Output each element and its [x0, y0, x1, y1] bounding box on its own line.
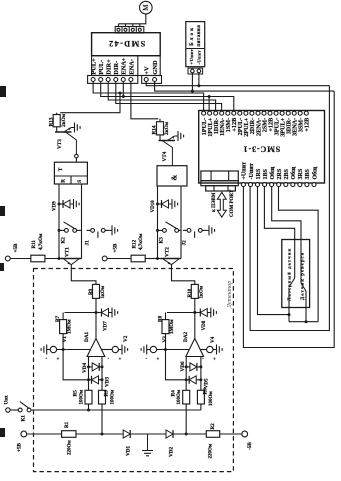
wire trigger S output to VT1 collector	[81, 184, 83, 259]
wire R12 to VT2 base	[145, 258, 160, 260]
junction VD10 tap	[156, 203, 159, 206]
diode VD2	[166, 430, 173, 438]
diode VD7	[102, 309, 109, 317]
wire X1 pin3 stub	[132, 24, 134, 27]
svg-text:V4: V4	[210, 336, 216, 343]
svg-text:100Ом: 100Ом	[110, 389, 115, 404]
SMD-42 signal terminal box	[88, 76, 138, 84]
transistor VT1	[61, 258, 82, 260]
wire DA1 right input rail	[101, 357, 103, 391]
svg-text:VD4: VD4	[82, 363, 88, 373]
contact K3	[163, 229, 167, 233]
svg-text:Общ: Общ	[290, 166, 297, 180]
svg-text:V2: V2	[123, 335, 129, 342]
svg-text:R6: R6	[203, 388, 209, 395]
ground center rail	[147, 434, 149, 451]
switch K1	[18, 408, 22, 412]
wire Uvx rail	[31, 409, 201, 411]
junction laser return	[288, 313, 291, 316]
reverse sensor contact	[300, 240, 302, 284]
svg-text:4,7кОм: 4,7кОм	[139, 233, 144, 250]
SMD-42 terminal DIR-	[114, 78, 118, 82]
svg-text:M: M	[142, 4, 150, 11]
svg-text:2кОм: 2кОм	[164, 121, 170, 135]
svg-text:R14: R14	[151, 125, 157, 134]
svg-text:-5В: -5В	[247, 442, 253, 450]
SMC bottom pin +Uпит	[241, 183, 245, 187]
svg-text:100Ом: 100Ом	[177, 389, 182, 404]
SMC pin 2SM- (11)	[262, 111, 266, 115]
junction -U/+V rail	[197, 84, 200, 87]
wire R8 to V3 line	[165, 334, 167, 350]
resistor R3	[99, 390, 106, 404]
power supply unit body	[186, 22, 205, 67]
wire R10 to DA2 output	[194, 298, 196, 338]
junction DA2 output node	[193, 311, 196, 314]
dashed boundary box (shaper unit)	[34, 269, 234, 472]
ground VD7	[109, 312, 113, 314]
power supply divider	[186, 48, 205, 50]
svg-text:+Uпит: +Uпит	[189, 49, 194, 65]
wire 1RS to laser sensor return	[258, 187, 290, 315]
SMC pin 3SM- (17)	[298, 111, 302, 115]
junction R3/rail	[101, 433, 104, 436]
svg-text:2RS: 2RS	[277, 168, 283, 179]
svg-text:VD8: VD8	[202, 320, 207, 330]
wire to K3 left	[158, 229, 163, 231]
wire X1 pin1 stub	[118, 24, 120, 27]
wire K2 right to riser	[77, 229, 82, 231]
wire GND loop to +Upit pin	[243, 91, 334, 347]
junction K2 tap	[58, 229, 61, 232]
svg-text:220Ом: 220Ом	[209, 443, 214, 458]
COM PORT bottom divider 2	[227, 186, 229, 191]
svg-text:к ПЭВМ: к ПЭВМ	[212, 192, 217, 212]
svg-text:GND: GND	[152, 60, 159, 75]
svg-text:R4: R4	[170, 390, 176, 397]
connector X1 body	[115, 27, 144, 34]
svg-text:R3: R3	[104, 390, 110, 397]
wire DA2 left input rail	[185, 357, 187, 391]
svg-text:VD9: VD9	[53, 201, 58, 211]
SMC bottom pin 1BS	[263, 183, 267, 187]
driver SMD-42 pin label strip	[92, 56, 161, 76]
connector X1 pin2	[124, 28, 127, 31]
resistor R9	[93, 284, 100, 298]
resistor R6	[197, 390, 204, 404]
svg-text:VD6: VD6	[180, 361, 186, 371]
svg-text:+V: +V	[144, 66, 151, 75]
svg-text:+5В: +5В	[13, 243, 19, 253]
ground V4	[213, 349, 217, 351]
SMC bottom pin 3RS	[298, 183, 302, 187]
svg-text:220Ом: 220Ом	[67, 440, 72, 455]
wire R14 to VT4 base	[159, 135, 161, 140]
op-amp DA2	[186, 338, 204, 356]
svg-text:1кОм: 1кОм	[200, 285, 205, 298]
SMC pin 1ENA- (4)	[220, 111, 224, 115]
wire R2 to -5B	[220, 433, 242, 435]
wire to VD10	[158, 203, 162, 205]
svg-text:Uвх: Uвх	[4, 395, 10, 405]
junction ENA+ tap	[122, 95, 125, 98]
ground V3	[147, 349, 151, 351]
svg-text:Общ: Общ	[269, 166, 276, 180]
svg-text:1BS: 1BS	[263, 168, 269, 179]
diode VD5	[189, 376, 196, 384]
wire R5 to Uvx rail	[88, 404, 90, 410]
SMD-42 terminal GND	[153, 78, 157, 82]
power supply terminal +U	[191, 69, 195, 73]
svg-text:J2: J2	[182, 240, 188, 246]
junction R5/rail	[87, 409, 90, 412]
wire +5B to R11	[10, 258, 31, 260]
wire +U terminal to GND rail	[191, 73, 193, 91]
wire R9 to DA1 output	[95, 298, 97, 338]
AND gate DD2 body	[157, 166, 187, 186]
wire sensor common rail	[289, 321, 318, 323]
svg-text:R1: R1	[65, 421, 70, 428]
junction VT1 base	[58, 257, 61, 260]
junction R4/rail	[185, 433, 188, 436]
svg-text:1МОм: 1МОм	[68, 319, 73, 334]
diode VD9	[63, 200, 70, 208]
ground J2	[206, 229, 210, 231]
svg-text:S: S	[78, 180, 83, 183]
wire PUL+ to 1PUL-	[93, 82, 204, 113]
COM PORT divider 1	[210, 171, 212, 181]
driver SMD-42 strip divider	[137, 56, 139, 76]
wire node to R8	[167, 312, 195, 314]
SMD-42 power terminal box	[142, 76, 162, 84]
SMC pin +12B (12)	[268, 111, 272, 115]
SMD-42 terminal DIR+	[106, 78, 110, 82]
SMC pin 1DIR- (3)	[214, 111, 218, 115]
wire tap to R13	[60, 93, 120, 113]
SMC bottom pin 1RS	[256, 183, 260, 187]
terminal +5B (VT1)	[5, 256, 10, 261]
ground VD8	[207, 312, 211, 314]
resistor R7	[62, 313, 64, 320]
svg-text:DA2: DA2	[183, 332, 189, 342]
wire +5B to R12	[107, 258, 131, 260]
svg-text:R7: R7	[56, 315, 61, 322]
wire DA1 left input rail	[88, 357, 90, 391]
wire R11 to VT1 base	[45, 258, 61, 260]
wire R6 to Uvx rail	[200, 404, 202, 410]
motor M1 label	[142, 4, 150, 11]
diode VD10	[162, 200, 169, 208]
terminal V1	[50, 346, 56, 352]
ground VT3 emitter	[71, 127, 75, 129]
terminal Uvx	[6, 408, 10, 412]
svg-text:J1: J1	[85, 240, 91, 246]
wire V4 to DA2 input	[200, 349, 207, 351]
svg-text:DIR+: DIR+	[106, 59, 113, 75]
svg-text:PUL+: PUL+	[91, 58, 98, 75]
resistor R4	[183, 390, 190, 404]
junction DA1 output node	[95, 311, 98, 314]
svg-text:+12B: +12B	[304, 118, 311, 132]
terminal V4	[207, 346, 213, 352]
SMC bottom pin Общ	[270, 183, 274, 187]
wire AND output to VT2 base	[157, 186, 159, 259]
connector X1 divider 2	[128, 27, 130, 34]
SMD-42 terminal +V	[144, 78, 148, 82]
SMD-42 terminal PUL+	[91, 78, 95, 82]
svg-text:2кОм: 2кОм	[61, 113, 67, 127]
svg-text:COM PORT: COM PORT	[230, 189, 235, 217]
SMC pin 3PUL+ (14)	[280, 111, 284, 115]
wire X1 pin2 stub	[125, 24, 127, 27]
svg-text:T: T	[58, 167, 64, 171]
wire node to R7	[65, 312, 97, 314]
wire Obsh to reverse sensor	[272, 187, 301, 283]
resistor R1	[62, 431, 76, 438]
svg-text:SMC-3-1: SMC-3-1	[243, 145, 280, 154]
inverter bubble trigger input	[75, 154, 79, 158]
resistor R13	[56, 113, 58, 115]
svg-text:R8: R8	[158, 315, 163, 322]
svg-text:R9: R9	[89, 288, 94, 295]
svg-text:+5В: +5В	[113, 243, 119, 253]
svg-text:4,7кОм: 4,7кОм	[39, 233, 44, 250]
motor M1 body	[140, 1, 153, 14]
svg-text:Детектор: Детектор	[226, 281, 233, 309]
svg-text:+: +	[57, 358, 60, 363]
junction K3 tap	[156, 229, 159, 232]
SMC bottom pin 2RS	[277, 183, 281, 187]
connector COM PORT band	[201, 181, 238, 186]
svg-text:PUL-: PUL-	[98, 60, 105, 75]
resistor R8	[165, 313, 167, 320]
SMC pin 1PUL+ (2)	[208, 111, 212, 115]
SMC bottom pin -Uпит	[249, 183, 253, 187]
resistor R12	[131, 255, 145, 262]
wire V3 net to VD5 rail	[166, 350, 187, 380]
wire drop to 1PUL+	[208, 97, 210, 113]
diode VD6	[190, 363, 197, 371]
svg-text:К3: К3	[159, 237, 165, 244]
ground V1	[47, 349, 51, 351]
wire R3 to lower rail	[101, 404, 103, 434]
SMC bottom pin 2BS	[284, 183, 288, 187]
terminal +5B (VT2)	[102, 256, 107, 261]
resistor R10	[191, 284, 198, 298]
wire ENA+ tap	[122, 82, 124, 97]
svg-text:1МОм: 1МОм	[170, 319, 175, 334]
wire DIR- to 1ENA-	[116, 82, 222, 113]
wire V2 to DA1 input	[101, 349, 112, 351]
ground V2	[119, 349, 123, 351]
svg-text:VD5: VD5	[204, 378, 210, 388]
wire 1BS to laser sensor	[264, 187, 294, 278]
wire V3 to DA2 input	[157, 349, 189, 351]
svg-text:1RS: 1RS	[256, 168, 262, 179]
COM PORT divider 2	[228, 171, 230, 181]
diode VD1	[123, 430, 130, 438]
power supply terminal -U	[197, 69, 201, 73]
svg-text:Датчик реверса: Датчик реверса	[299, 252, 304, 300]
svg-text:-Uпит: -Uпит	[249, 163, 255, 179]
trigger divider vertical	[70, 176, 72, 184]
SMC pin 3ENA- (16)	[292, 111, 296, 115]
svg-text:R13: R13	[49, 117, 55, 126]
wire reverse sensor lower lead	[305, 291, 307, 322]
SMC pin +12B (18)	[304, 111, 308, 115]
SMC pin 1PUL- (1)	[202, 111, 206, 115]
svg-text:К1: К1	[21, 415, 27, 422]
svg-text:R10: R10	[188, 288, 193, 297]
wire VD1 to VD2	[130, 433, 166, 435]
svg-text:питания: питания	[197, 25, 202, 47]
svg-text:1кОм: 1кОм	[101, 285, 106, 298]
ground VD9	[70, 203, 74, 205]
arrow to PC (COM PORT)	[217, 192, 226, 217]
diode VD4	[92, 363, 99, 371]
svg-text:-Uпит: -Uпит	[197, 50, 202, 65]
transistor VT2	[161, 258, 182, 260]
wire +V rail	[146, 82, 329, 86]
connector X1 pin4	[138, 28, 141, 31]
svg-text:ENA-: ENA-	[128, 59, 135, 75]
svg-text:VD7: VD7	[103, 321, 108, 331]
connector X1 pin1	[117, 28, 120, 31]
terminal -5B	[242, 431, 248, 437]
svg-text:+5В: +5В	[17, 442, 23, 452]
svg-text:R5: R5	[73, 390, 79, 397]
laser sensor contact	[294, 240, 296, 279]
connector X1 pin3	[131, 28, 134, 31]
svg-text:100Ом: 100Ом	[79, 389, 84, 404]
wire DIR+ to 1DIR-	[108, 82, 215, 113]
svg-text:V3: V3	[162, 336, 168, 343]
terminal +5B bottom	[21, 431, 27, 437]
wire V1 to DA1 input	[57, 349, 91, 351]
svg-text:VD3: VD3	[105, 377, 111, 387]
svg-text:SMD-42: SMD-42	[108, 39, 146, 48]
diode VD8	[200, 309, 207, 317]
sensor box body	[282, 240, 310, 308]
svg-text:Общ: Общ	[311, 166, 318, 180]
wire ENA- to R14	[131, 97, 159, 119]
wire node to VD8	[195, 312, 201, 314]
wire R7 to V1 line	[62, 334, 64, 350]
jumper J2	[183, 229, 187, 231]
junction 1PUL+ drop	[208, 95, 211, 98]
connector COM PORT bottom row	[206, 186, 236, 191]
resistor R14	[159, 119, 161, 122]
svg-text:100Ом: 100Ом	[209, 391, 214, 406]
svg-text:&: &	[171, 175, 179, 181]
SMC pin 2PUL- (7)	[238, 111, 242, 115]
wire trigger R output to VT1 base	[58, 184, 60, 259]
svg-text:Блок: Блок	[189, 26, 195, 46]
svg-text:2BS: 2BS	[284, 168, 290, 179]
SMD-42 terminal PUL-	[99, 78, 103, 82]
op-amp DA1	[87, 338, 105, 356]
connector X1 divider 1	[121, 27, 123, 34]
svg-text:VT3: VT3	[57, 139, 63, 149]
wire VT2 emitter to R10	[172, 265, 195, 285]
ground VT4 emitter	[175, 135, 179, 137]
transistor VT3	[55, 131, 72, 133]
wire bubble to trigger	[75, 158, 77, 162]
SMC bottom pin 3BS	[305, 183, 309, 187]
trigger DD1 body	[54, 162, 87, 184]
wire AND output 2 to VT2 collector	[180, 186, 182, 259]
svg-text:3BS: 3BS	[305, 168, 311, 179]
wire R1 to VD1	[76, 433, 123, 435]
terminal V2	[112, 346, 118, 352]
terminal V3	[150, 346, 156, 352]
SMC bottom pin Общ	[291, 183, 295, 187]
svg-text:3RS: 3RS	[298, 168, 304, 179]
svg-text:VT4: VT4	[162, 151, 168, 161]
COM PORT bottom divider 1	[213, 186, 215, 191]
wire K3 right to riser	[179, 229, 181, 231]
wire DA2 right input rail	[200, 357, 202, 391]
resistor R2	[206, 431, 219, 438]
wire PUL- to +12B	[101, 82, 234, 113]
connector COM PORT top row	[201, 171, 238, 181]
jumper J1	[87, 229, 91, 231]
svg-text:VT1: VT1	[65, 247, 71, 257]
svg-text:+Uпит: +Uпит	[242, 162, 248, 180]
wire R13 to VT3 base	[56, 127, 58, 132]
svg-text:DA1: DA1	[84, 332, 90, 342]
junction reverse sensor/common	[305, 320, 308, 323]
junction R7/V1	[62, 348, 65, 351]
svg-text:R12: R12	[133, 239, 138, 248]
svg-text:+: +	[119, 358, 122, 363]
svg-text:R2: R2	[211, 423, 216, 430]
connector X1 divider 3	[135, 27, 137, 34]
svg-text:R11: R11	[32, 240, 37, 249]
wire motor to connector X1	[119, 14, 146, 24]
svg-text:VT2: VT2	[165, 247, 171, 257]
wire VT1 emitter to R9	[71, 265, 96, 285]
wire 2RS to sensor common	[279, 187, 319, 322]
SMD-42 terminal ENA-	[129, 78, 133, 82]
svg-text:+: +	[213, 358, 216, 363]
junction R8/V3	[164, 348, 167, 351]
contact K2	[65, 229, 69, 233]
ground VD10	[169, 203, 173, 205]
wire J2 to ground	[202, 229, 205, 231]
wire +V loop to -Upit pin	[250, 86, 329, 331]
wire GND rail	[155, 82, 335, 92]
wire node to VD7	[96, 312, 102, 314]
svg-text:DIR-: DIR-	[113, 61, 120, 75]
wire to VD9	[59, 203, 63, 205]
SMC pin 2PUL+ (8)	[244, 111, 248, 115]
driver SMD-42 body	[92, 33, 161, 56]
resistor R5	[85, 390, 92, 404]
junction VT2 base	[156, 257, 159, 260]
wire VD2 to R2	[173, 433, 206, 435]
junction VD9 tap	[58, 203, 61, 206]
scan artifact blobs	[0, 86, 6, 97]
SMC pin +12B (6)	[232, 111, 236, 115]
svg-text:+: +	[157, 358, 160, 363]
svg-text:ENA+: ENA+	[121, 57, 128, 74]
svg-text:V1: V1	[62, 336, 68, 343]
SMC bottom pin Общ	[312, 183, 316, 187]
junction +U/GND rail	[191, 90, 194, 93]
wire Uvx to K1	[10, 409, 18, 411]
wire V1 net to VD3 rail	[63, 350, 88, 380]
